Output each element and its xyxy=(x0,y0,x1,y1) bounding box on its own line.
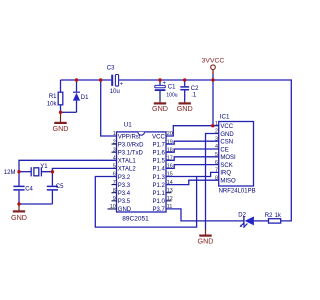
svg-text:GND: GND xyxy=(220,132,234,138)
svg-text:D1: D1 xyxy=(81,95,89,101)
IC IC1 (NRF24L01PB RF module) body xyxy=(219,113,254,186)
svg-text:10: 10 xyxy=(110,204,116,210)
svg-text:P1.2: P1.2 xyxy=(152,183,165,189)
svg-text:GND: GND xyxy=(177,104,193,113)
U1 pin numbers 20-11 (right) xyxy=(167,131,173,210)
junction at C1 tap on rail xyxy=(158,78,161,81)
capacitor C5 xyxy=(47,184,64,204)
svg-text:MISO: MISO xyxy=(220,179,236,185)
capacitor C4 xyxy=(13,186,33,204)
svg-text:8: 8 xyxy=(113,188,116,194)
svg-text:P1.6: P1.6 xyxy=(152,151,165,157)
svg-text:C2: C2 xyxy=(191,86,199,92)
junction of Y1 branch on XTAL1 drop xyxy=(17,170,20,173)
resistor R1 xyxy=(49,80,63,112)
wire: XTAL1 net from U1 pin4 left and down to C4 xyxy=(19,160,117,186)
wire: IRQ net U1 pin15 P1.3 to IC1 pin7 xyxy=(166,172,219,176)
ground (GND net, below IC1) xyxy=(198,229,214,246)
svg-text:IRQ: IRQ xyxy=(220,171,231,177)
svg-text:U1: U1 xyxy=(124,122,132,129)
junction of C5 drop on XTAL2 net xyxy=(51,170,54,173)
svg-text:VCC: VCC xyxy=(220,124,233,130)
diode D1 xyxy=(73,80,89,112)
svg-text:13: 13 xyxy=(167,188,173,194)
wire: R1 bottom to D1 bottom xyxy=(61,111,77,113)
LED D2 xyxy=(238,213,254,228)
svg-text:100u: 100u xyxy=(166,92,177,98)
wire: XTAL2 drop to C5 xyxy=(51,172,53,186)
wire: VCC net U1 pin20 to IC1 pin1 xyxy=(166,126,219,136)
svg-text:C4: C4 xyxy=(25,186,33,192)
svg-text:1: 1 xyxy=(113,131,116,137)
junction of 3VVCC drop on VCC net at IC1 pin1 xyxy=(211,124,214,127)
wire: U1 pin11 P3.7 to LED circuit xyxy=(166,209,244,221)
svg-text:VPP/Rst: VPP/Rst xyxy=(118,134,141,140)
capacitor C2 (ceramic decoupling) xyxy=(180,80,199,101)
svg-text:3: 3 xyxy=(113,147,116,153)
IC1 pin numbers 1-8 xyxy=(215,121,218,181)
svg-text:7: 7 xyxy=(113,180,116,186)
svg-text:+: + xyxy=(120,81,124,87)
svg-text:GND: GND xyxy=(11,213,27,222)
IC1 pin names xyxy=(220,124,236,185)
wire: reset node down to U1 pin 1 (VPP/Rst) xyxy=(101,80,117,136)
svg-text:P1.4: P1.4 xyxy=(152,167,165,173)
svg-text:1k: 1k xyxy=(275,213,282,219)
wire: 3VVCC drop to rail and on down to VCC line xyxy=(212,74,214,126)
svg-text:12M: 12M xyxy=(4,170,16,176)
svg-text:9: 9 xyxy=(113,196,116,202)
svg-text:SCK: SCK xyxy=(220,163,232,169)
svg-text:MOSI: MOSI xyxy=(220,155,236,161)
svg-text:GND: GND xyxy=(53,124,69,133)
svg-text:P1.5: P1.5 xyxy=(152,159,165,165)
svg-text:CE: CE xyxy=(220,147,228,153)
U1 right pin stubs (pins 13,12) xyxy=(166,193,172,201)
wire: D2 anode to R2 left terminal xyxy=(254,220,269,222)
svg-text:P3.7: P3.7 xyxy=(152,207,165,213)
U1 pin numbers 1-10 (left) xyxy=(110,131,116,210)
svg-text:.1: .1 xyxy=(191,93,197,99)
svg-text:3VVCC: 3VVCC xyxy=(202,58,225,65)
U1 right pin names xyxy=(152,134,165,213)
svg-text:XTAL2: XTAL2 xyxy=(118,167,137,173)
wire: CE net U1 pin18 P1.6 to IC1 pin4 xyxy=(166,149,219,152)
capacitor C1 (polarized decoupling) xyxy=(155,80,176,101)
U1 left pin names xyxy=(118,134,144,213)
resistor R2 xyxy=(265,213,281,223)
svg-text:89C2051: 89C2051 xyxy=(122,215,149,222)
IC U1 (89C2051 microcontroller) body xyxy=(117,122,167,212)
svg-text:P1.7: P1.7 xyxy=(152,142,165,148)
svg-text:12: 12 xyxy=(167,196,173,202)
svg-text:NRF24L01PB: NRF24L01PB xyxy=(219,189,256,195)
svg-text:R1: R1 xyxy=(49,94,57,100)
junction at D1 top on rail xyxy=(75,78,78,81)
wire: XTAL1 branch to Y1 left plate xyxy=(19,171,31,173)
wire: MISO net U1 pin14 P1.2 to IC1 pin8 xyxy=(166,180,219,184)
svg-text:P3.4: P3.4 xyxy=(118,191,131,197)
wire: GND net from IC1 pin2 down to ground xyxy=(206,134,219,230)
ground (C1) xyxy=(152,101,168,113)
svg-text:P1.3: P1.3 xyxy=(152,175,165,181)
wire: CSN net U1 pin19 P1.7 to IC1 pin3 xyxy=(166,141,219,144)
svg-text:Y1: Y1 xyxy=(40,164,48,170)
wire: MOSI net U1 pin17 P1.5 to IC1 pin5 xyxy=(166,157,219,161)
power port 3VVCC xyxy=(202,58,225,75)
wire: IRQ net branch around chip bottom to U1 pin6 P3.2 xyxy=(95,177,196,228)
wire: C4 bottom to C5 bottom xyxy=(19,203,52,205)
svg-text:10u: 10u xyxy=(110,89,120,95)
ground (crystal network) xyxy=(11,204,27,222)
wire: SCK net U1 pin16 P1.4 to IC1 pin6 xyxy=(166,165,219,169)
svg-text:C1: C1 xyxy=(168,84,176,90)
svg-text:P3.0/RxD: P3.0/RxD xyxy=(118,142,144,148)
svg-text:P3.2: P3.2 xyxy=(118,175,131,181)
crystal Y1 xyxy=(31,164,48,176)
svg-text:P3.1/TxD: P3.1/TxD xyxy=(118,151,144,157)
svg-text:C5: C5 xyxy=(56,184,64,190)
junction at C4 bottom / ground tap xyxy=(17,202,20,205)
wire: XTAL2 net from U1 pin5 to Y1 right plate xyxy=(41,168,116,171)
junction at C2 tap on rail xyxy=(183,78,186,81)
svg-text:R2: R2 xyxy=(265,213,273,219)
capacitor C3 (polarized, series in rail) xyxy=(107,66,124,88)
svg-text:GND: GND xyxy=(118,207,132,213)
svg-text:P1.1: P1.1 xyxy=(152,191,165,197)
svg-text:GND: GND xyxy=(152,104,168,113)
ground (reset network) xyxy=(53,113,69,133)
svg-text:D2: D2 xyxy=(238,213,246,219)
svg-text:C3: C3 xyxy=(107,66,115,72)
svg-text:10k: 10k xyxy=(47,102,58,108)
junction of 3VVCC drop on rail xyxy=(211,78,214,81)
svg-text:CSN: CSN xyxy=(220,140,233,146)
junction at R1 bottom / ground tap xyxy=(59,111,62,114)
junction of reset-node vertical on rail xyxy=(99,78,102,81)
wire: reset-node rail segment (R1/D1 top to C3 left plate) xyxy=(61,79,112,81)
U1 left pin stubs (pins 2,3,7,8,9,10) xyxy=(108,144,117,209)
wire: 3V VCC rail from C3 right plate to right edge, down to R2 xyxy=(119,80,291,221)
svg-text:2: 2 xyxy=(113,139,116,145)
svg-text:XTAL1: XTAL1 xyxy=(118,159,137,165)
svg-text:P3.3: P3.3 xyxy=(118,183,131,189)
ground (C2) xyxy=(177,101,193,113)
svg-text:GND: GND xyxy=(198,237,214,246)
svg-text:P3.5: P3.5 xyxy=(118,199,131,205)
svg-text:VCC: VCC xyxy=(152,134,165,140)
svg-text:P1.0: P1.0 xyxy=(152,199,165,205)
svg-text:IC1: IC1 xyxy=(220,113,230,120)
